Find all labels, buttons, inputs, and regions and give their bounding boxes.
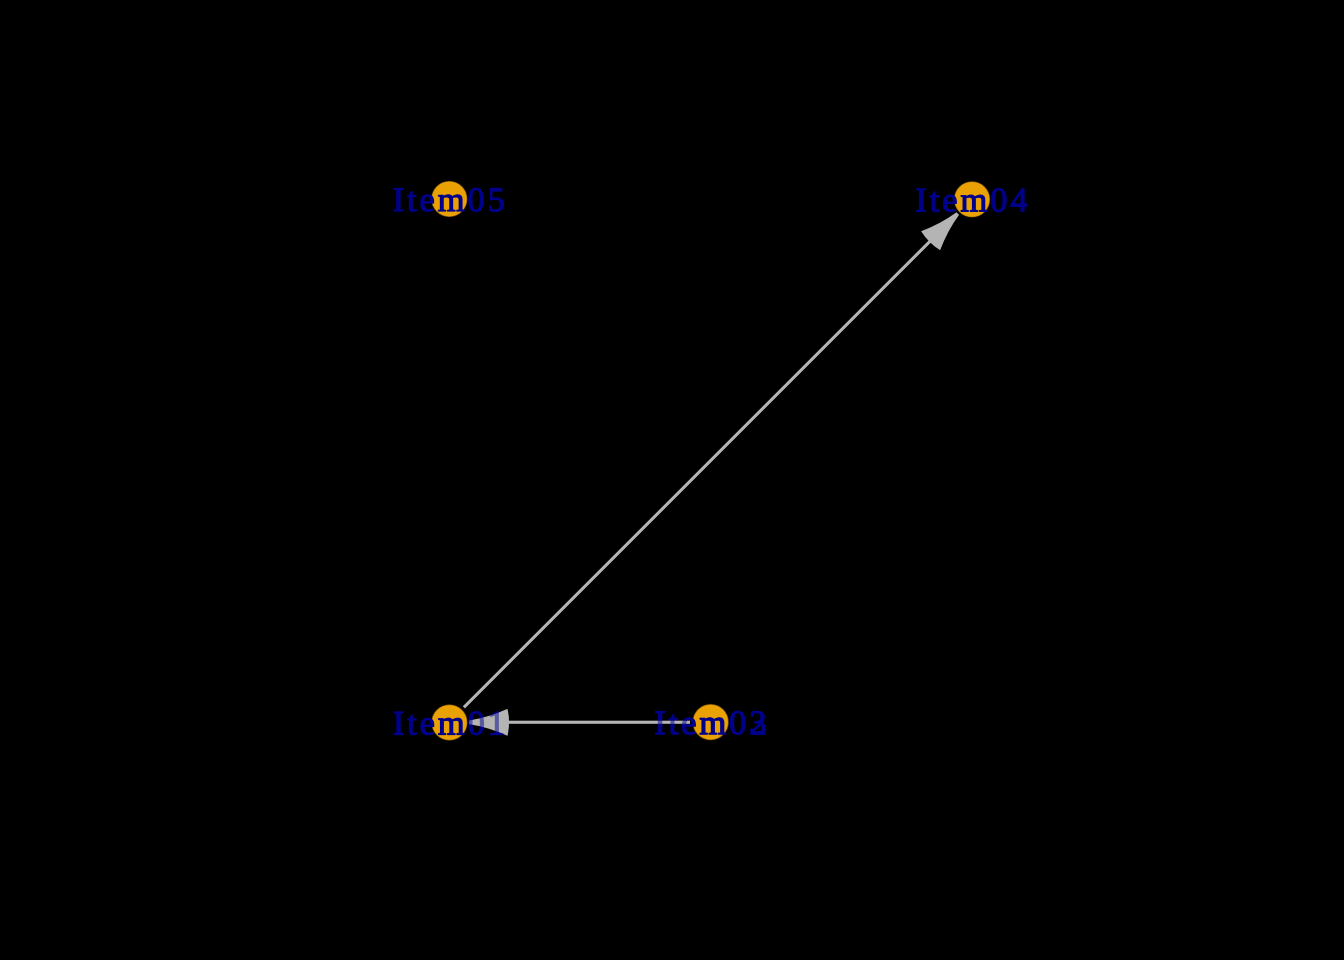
label Item01 bbox=[394, 712, 503, 735]
wire edge Item01 to Item04 (upper translucent pass) bbox=[464, 204, 967, 736]
node Item03 circle bbox=[693, 704, 729, 740]
wire edge Item03 to Item01 bbox=[471, 721, 690, 724]
arrowhead at Item04 (upper translucent pass) bbox=[920, 204, 967, 251]
wire edge Item01 to Item04 bbox=[464, 214, 958, 708]
node Item05 circle bbox=[431, 181, 467, 217]
node Item04 circle bbox=[954, 181, 990, 217]
label Item05 bbox=[394, 188, 504, 211]
node Item02 circle bbox=[693, 704, 729, 740]
arrowhead at Item01 bbox=[469, 709, 509, 736]
wire edge Item03 to Item01 (upper translucent pass) bbox=[471, 721, 690, 724]
label Item02 bbox=[656, 711, 765, 734]
arrowhead at Item01 (upper translucent pass) bbox=[469, 709, 509, 736]
label Item04 bbox=[917, 189, 1027, 212]
node Item01 circle bbox=[431, 705, 467, 741]
label Item03 bbox=[656, 711, 766, 734]
arrowhead at Item04 bbox=[920, 204, 967, 251]
